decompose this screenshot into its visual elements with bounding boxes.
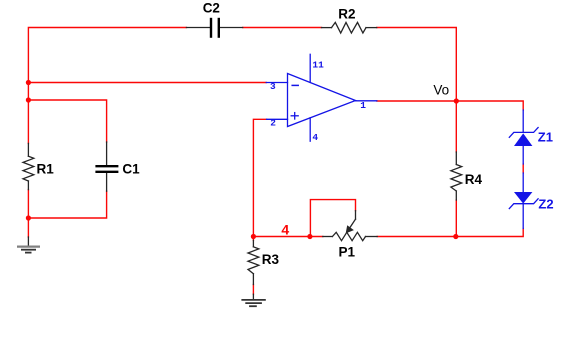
svg-text:R4: R4	[465, 172, 483, 187]
svg-text:2: 2	[270, 117, 276, 128]
svg-text:3: 3	[270, 81, 276, 92]
svg-text:C1: C1	[122, 162, 140, 177]
svg-text:Z1: Z1	[538, 129, 553, 144]
svg-text:P1: P1	[339, 245, 356, 260]
svg-text:R3: R3	[262, 252, 280, 267]
svg-text:Vo: Vo	[433, 82, 449, 97]
svg-text:4: 4	[312, 132, 318, 143]
svg-text:Z2: Z2	[538, 196, 553, 211]
svg-text:11: 11	[312, 59, 324, 70]
svg-text:C2: C2	[203, 1, 220, 16]
svg-text:4: 4	[281, 222, 289, 238]
svg-text:1: 1	[360, 100, 366, 111]
svg-text:R2: R2	[338, 6, 355, 21]
svg-text:R1: R1	[37, 162, 55, 177]
